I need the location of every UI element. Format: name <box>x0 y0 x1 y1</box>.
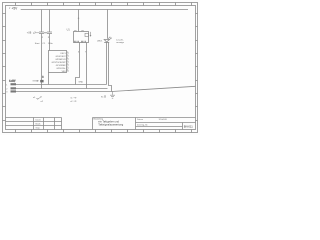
capacitor C1 <box>39 32 44 34</box>
svg-text:GP2/T0CKI/INT: GP2/T0CKI/INT <box>52 62 67 64</box>
junction dot on U1 supply wire <box>78 18 79 19</box>
terminal block 1 <box>11 83 17 85</box>
connector pin numbers <box>67 52 68 72</box>
wire C2 down to connector box <box>49 34 51 51</box>
svg-text:+UB: +UB <box>27 33 32 35</box>
svg-text:a2: a2 <box>41 101 44 103</box>
border ticks left <box>3 14 6 121</box>
label +5V <box>8 7 11 9</box>
wire C1-C2 link <box>44 32 47 34</box>
svg-text:Zeichng.-Nr.: Zeichng.-Nr. <box>137 125 148 127</box>
svg-text:8: 8 <box>67 70 68 72</box>
svg-text:3: 3 <box>6 91 8 93</box>
U1 top pin stubs <box>74 30 83 33</box>
connector pin stubs <box>67 53 70 71</box>
border frame inner <box>6 6 196 130</box>
op-amp U1 box <box>74 32 89 43</box>
svg-text:Datum: Datum <box>137 118 143 121</box>
svg-text:6: 6 <box>67 64 68 66</box>
svg-text:100n: 100n <box>48 43 54 45</box>
svg-text:Datum: Datum <box>36 118 42 121</box>
svg-text:a1: a1 <box>33 97 36 99</box>
net tag pad on wire <box>40 80 43 83</box>
terminal block 3 <box>11 90 17 92</box>
svg-text:n1: n1 <box>70 98 73 100</box>
capacitor polarity marks <box>42 37 50 38</box>
title block main box <box>93 118 196 130</box>
wire U1 pin7 down <box>86 43 88 89</box>
svg-text:GP3/MCLR: GP3/MCLR <box>55 59 66 61</box>
svg-text:12.04.03: 12.04.03 <box>159 119 168 121</box>
wire connector down to rail <box>48 73 50 85</box>
LED arrows <box>108 37 112 40</box>
U1 output arrow <box>90 32 92 36</box>
svg-text:LED1: LED1 <box>97 41 103 43</box>
svg-text:OSC1: OSC1 <box>60 53 66 55</box>
svg-text:2: 2 <box>6 89 8 91</box>
svg-text:C1: C1 <box>42 43 46 45</box>
svg-text:U1: U1 <box>67 29 71 32</box>
left table cell texts <box>36 118 42 129</box>
svg-text:anzeige: anzeige <box>116 42 124 44</box>
svg-text:4: 4 <box>67 58 68 60</box>
wire U1 pin3 down <box>76 43 80 85</box>
svg-text:Leucht-: Leucht- <box>116 38 124 41</box>
wire bottom rail C <box>16 91 112 93</box>
svg-text:GP4/OSC2: GP4/OSC2 <box>56 56 67 58</box>
border ticks top <box>16 3 192 6</box>
wire bottom rail A <box>16 84 107 86</box>
U1 inner block <box>85 33 89 36</box>
svg-text:Bearb.: Bearb. <box>36 123 42 125</box>
U1 pin hatches <box>75 41 86 43</box>
svg-text:7: 7 <box>67 67 68 69</box>
terminal block 2 <box>11 87 17 89</box>
svg-text:5: 5 <box>67 61 68 63</box>
svg-text:GND: GND <box>79 81 84 83</box>
wire bottom rail B <box>16 88 108 90</box>
wire LED down right <box>109 43 112 92</box>
svg-text:Start: Start <box>35 42 40 45</box>
capacitor C2 <box>47 32 52 34</box>
wire LED down left <box>106 43 108 85</box>
title block left table <box>6 118 62 130</box>
connector X1 box <box>49 51 67 73</box>
border ticks bottom <box>16 130 192 133</box>
wire rail to C1 <box>41 10 43 33</box>
svg-text:GP0/CIN+: GP0/CIN+ <box>56 68 66 70</box>
svg-text:GP1/VREF: GP1/VREF <box>56 65 67 67</box>
wire diagonal to right border <box>112 86 196 91</box>
net flag arrow <box>33 80 38 82</box>
border frame outer <box>3 3 198 133</box>
ground <box>110 92 115 99</box>
svg-text:1 +12V: 1 +12V <box>9 80 16 82</box>
wire rail to C2 <box>49 10 51 33</box>
svg-text:BN-011: BN-011 <box>184 124 193 128</box>
svg-text:K1: K1 <box>101 96 104 98</box>
svg-text:1: 1 <box>6 85 8 87</box>
wire C1 to bottom rail <box>41 34 43 89</box>
wire +5V rail <box>21 9 188 11</box>
border ticks right <box>196 14 198 121</box>
wire rail to LED <box>107 10 109 39</box>
svg-text:Taktsignalauswertung: Taktsignalauswertung <box>98 123 124 127</box>
connector pin names <box>52 53 67 73</box>
svg-text:Gepr.: Gepr. <box>36 127 41 129</box>
LED D1 symbol <box>104 40 109 43</box>
svg-text:2: 2 <box>42 76 43 78</box>
svg-text:3: 3 <box>67 55 68 57</box>
svg-text:2: 2 <box>67 52 68 54</box>
wire rail to U1 <box>78 10 80 32</box>
svg-text:n2: n2 <box>70 101 73 103</box>
svg-text:VSS: VSS <box>62 71 67 73</box>
svg-text:+5V: +5V <box>12 6 19 10</box>
